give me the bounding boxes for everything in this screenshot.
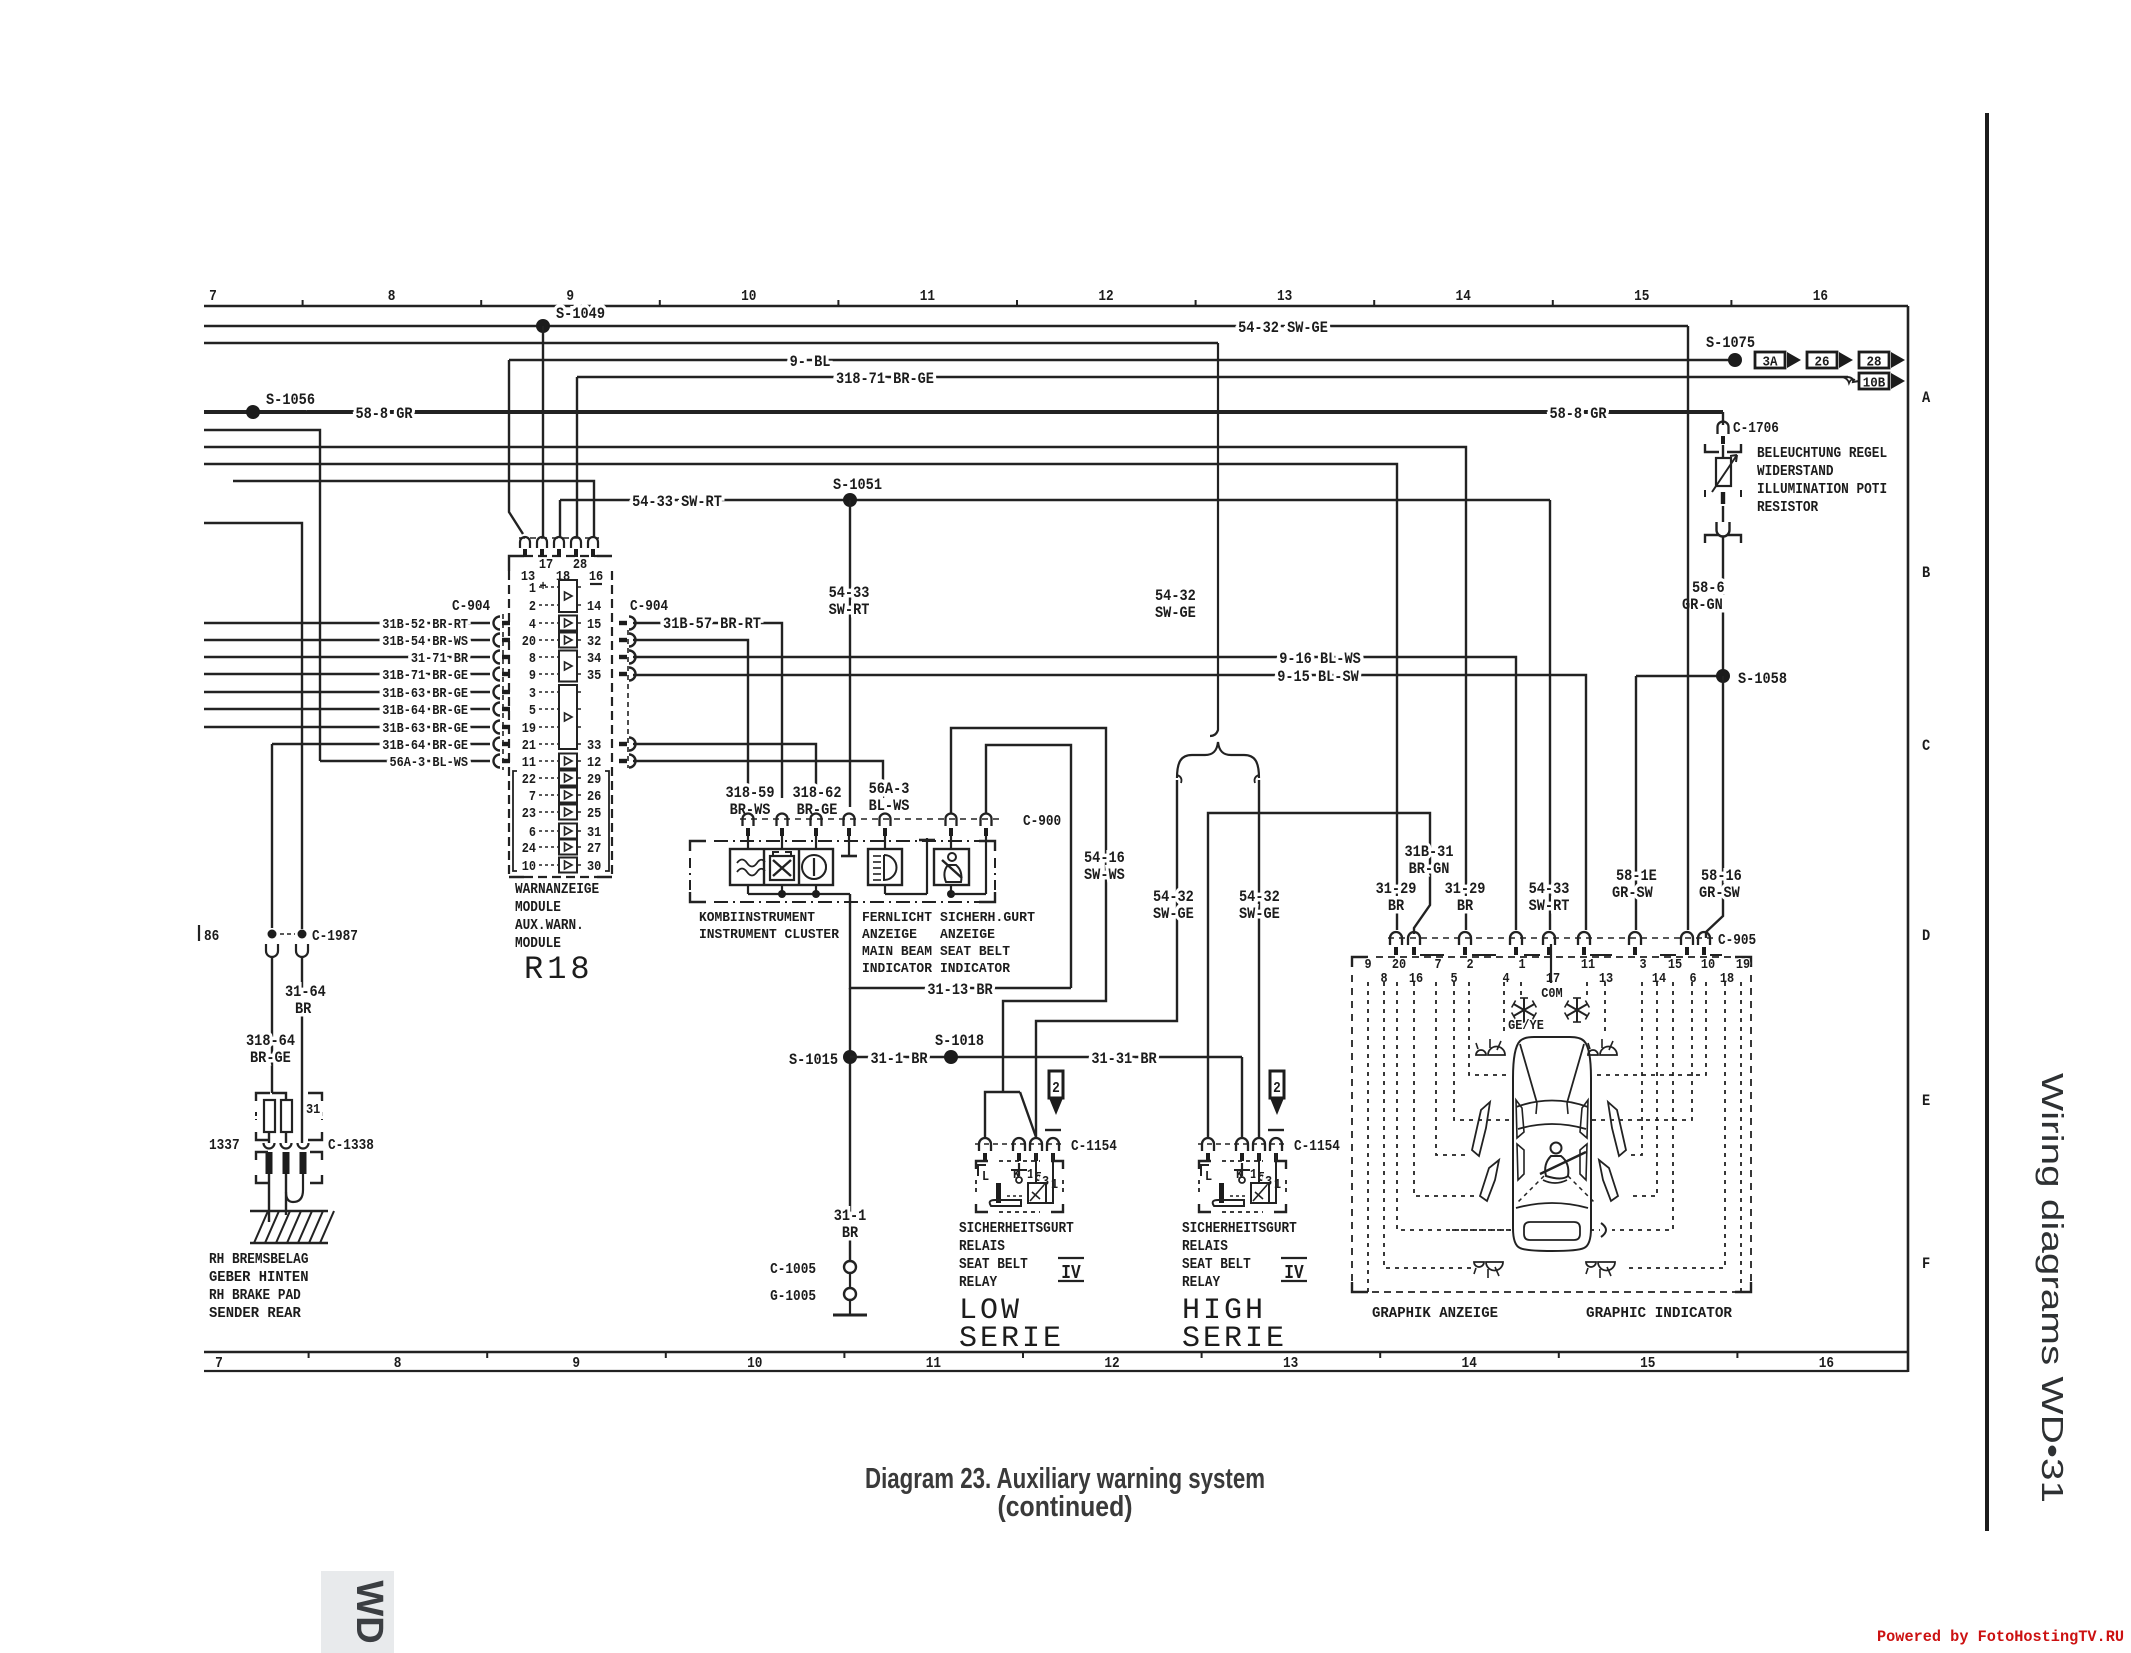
svg-text:SEAT BELT: SEAT BELT [1182, 1256, 1251, 1273]
group bracket left [513, 771, 517, 871]
arrow 10B [1859, 373, 1889, 389]
svg-text:GRAPHIC INDICATOR: GRAPHIC INDICATOR [1586, 1305, 1732, 1322]
svg-text:SICHERH.GURT: SICHERH.GURT [940, 910, 1035, 926]
svg-text:L: L [982, 1169, 989, 1185]
svg-text:4: 4 [529, 617, 536, 633]
svg-text:1337: 1337 [209, 1137, 240, 1154]
C-1154 pin x1276 [1270, 1138, 1282, 1151]
junction S-1058 [1636, 675, 1723, 677]
wire 31B-31 BR-GN [1208, 813, 1430, 1137]
left C-904 dashed connector line [502, 614, 504, 770]
wire 31B-54 BR-WS row y640 [204, 639, 490, 641]
svg-text:31B-52 BR-RT: 31B-52 BR-RT [382, 617, 468, 633]
side windows right [1580, 1100, 1588, 1138]
svg-text:Wiring diagrams WD•31: Wiring diagrams WD•31 [2035, 1073, 2070, 1503]
svg-text:86: 86 [204, 928, 219, 945]
svg-text:R18: R18 [524, 951, 594, 988]
C-905 pin x1704 [1698, 932, 1710, 945]
snowflake symbol [1523, 998, 1525, 1022]
dashed col 13 [1604, 982, 1606, 1036]
svg-text:C-1154: C-1154 [1071, 1138, 1117, 1155]
svg-text:KOMBIINSTRUMENT: KOMBIINSTRUMENT [699, 910, 815, 926]
svg-text:SW-RT: SW-RT [1529, 897, 1570, 915]
svg-text:RESISTOR: RESISTOR [1757, 499, 1818, 516]
svg-text:SW-GE: SW-GE [1153, 905, 1194, 923]
wire 56A-3 feeder [204, 430, 320, 761]
C-905 pin x1516 [1510, 932, 1522, 945]
diode D2 row 4 [559, 633, 577, 648]
svg-text:RH BREMSBELAG: RH BREMSBELAG [209, 1251, 309, 1268]
dashed col 6 [1592, 982, 1692, 1120]
svg-text:SICHERHEITSGURT: SICHERHEITSGURT [959, 1220, 1074, 1237]
top ruler line [204, 305, 1908, 308]
svg-text:12: 12 [587, 755, 601, 771]
rear window [1516, 1203, 1588, 1208]
svg-text:20: 20 [522, 634, 536, 650]
svg-text:SW-RT: SW-RT [829, 601, 870, 619]
sender resistor 2 [281, 1100, 292, 1132]
svg-text:INDICATOR: INDICATOR [862, 961, 933, 977]
dashed col 7 [1436, 982, 1470, 1155]
connector C-904 top pins [520, 537, 530, 548]
svg-text:C-1154: C-1154 [1294, 1138, 1340, 1155]
svg-text:28: 28 [573, 557, 587, 573]
sender resistor 1 [264, 1100, 275, 1132]
dashed seat lines [1518, 1176, 1544, 1202]
svg-text:SW-GE: SW-GE [1155, 604, 1196, 622]
dashed col 18 [1625, 982, 1725, 1268]
lamp symbol [1586, 1262, 1596, 1267]
svg-text:7: 7 [215, 1355, 223, 1372]
svg-text:12: 12 [1104, 1355, 1119, 1372]
diode row y812 [559, 805, 577, 820]
seat belt relay LOW connector C-1154 [975, 1143, 1063, 1145]
svg-text:SEAT BELT: SEAT BELT [940, 944, 1010, 960]
svg-text:2: 2 [1273, 1080, 1281, 1097]
svg-text:14: 14 [1456, 288, 1471, 305]
svg-text:31-1: 31-1 [834, 1207, 867, 1225]
group bracket right [605, 771, 609, 871]
svg-text:BR: BR [295, 1000, 312, 1018]
arrow 3A [1755, 352, 1785, 368]
main beam bottom rail [884, 885, 886, 894]
wire 58-6 GR-GN [1722, 536, 1724, 676]
right C-904 dashed connector line [627, 630, 629, 768]
diode row y865 [559, 858, 577, 873]
svg-text:RELAIS: RELAIS [959, 1238, 1005, 1255]
svg-text:54-33 SW-RT: 54-33 SW-RT [632, 493, 722, 511]
svg-text:BR: BR [842, 1224, 859, 1242]
svg-text:ANZEIGE: ANZEIGE [940, 927, 995, 943]
svg-text:58-6: 58-6 [1692, 579, 1725, 597]
dashed col 20 [1397, 982, 1511, 1230]
svg-text:2: 2 [529, 599, 536, 615]
svg-text:58-8 GR: 58-8 GR [1549, 405, 1606, 423]
svg-text:15: 15 [1634, 288, 1649, 305]
svg-text:(continued): (continued) [998, 1491, 1133, 1523]
svg-text:14: 14 [1462, 1355, 1477, 1372]
arrow 26 [1807, 352, 1837, 368]
open door flap upper left [1472, 1102, 1490, 1156]
svg-text:27: 27 [587, 841, 601, 857]
wire 58-8 GR (thick) [204, 410, 1723, 414]
svg-text:5: 5 [529, 703, 536, 719]
dashed col 19 [1740, 982, 1742, 1292]
svg-text:WARNANZEIGE: WARNANZEIGE [515, 881, 599, 898]
connector C-900 [740, 818, 1000, 820]
svg-text:15: 15 [1668, 957, 1682, 973]
svg-text:26: 26 [587, 789, 601, 805]
lamp symbol [1476, 1050, 1486, 1055]
C-1154 pin x985 [979, 1138, 991, 1151]
wire to LOW relay pin L [985, 1092, 1003, 1137]
svg-text:1: 1 [1250, 1167, 1257, 1183]
svg-text:SW-GE: SW-GE [1239, 905, 1280, 923]
svg-text:318-59: 318-59 [726, 784, 775, 802]
C-1154 pin x1208 [1202, 1138, 1214, 1151]
svg-text:15: 15 [1640, 1355, 1655, 1372]
svg-text:GR-SW: GR-SW [1699, 884, 1740, 902]
open door flap lower right [1599, 1160, 1618, 1201]
ruler tick [1016, 300, 1018, 306]
svg-text:RH BRAKE PAD: RH BRAKE PAD [209, 1287, 301, 1304]
wire 31-71 BR row y657 [204, 656, 490, 658]
svg-text:31B-71 BR-GE: 31B-71 BR-GE [382, 668, 468, 684]
C-900 pin x849 [844, 814, 855, 827]
svg-text:7: 7 [209, 288, 217, 305]
diode D1 rows 1-2 [559, 580, 577, 612]
connector C-1706 pin [1722, 412, 1724, 425]
seat belt person [1551, 1143, 1562, 1154]
svg-text:31-64: 31-64 [285, 983, 326, 1001]
svg-text:24: 24 [522, 841, 536, 857]
svg-text:54-32: 54-32 [1153, 888, 1194, 906]
svg-text:31: 31 [587, 825, 601, 841]
svg-text:FERNLICHT: FERNLICHT [862, 910, 932, 926]
ruler tick [1195, 300, 1197, 306]
svg-text:2: 2 [1466, 957, 1473, 973]
svg-text:RELAY: RELAY [1182, 1274, 1220, 1291]
svg-text:31B-57 BR-RT: 31B-57 BR-RT [663, 615, 761, 633]
svg-text:C-1005: C-1005 [770, 1261, 816, 1278]
wire stub left y523 [204, 523, 302, 929]
wire 31B-64 BR-GE row y744 [272, 743, 490, 745]
svg-text:SICHERHEITSGURT: SICHERHEITSGURT [1182, 1220, 1297, 1237]
svg-text:54-33: 54-33 [829, 584, 870, 602]
svg-text:1: 1 [1518, 957, 1525, 973]
wire 31B-63 BR-GE row y727 [204, 726, 490, 728]
svg-text:54-32: 54-32 [1155, 587, 1196, 605]
svg-text:31B-54 BR-WS: 31B-54 BR-WS [382, 634, 468, 650]
ruler tick [659, 300, 661, 306]
svg-text:GE/YE: GE/YE [1508, 1018, 1544, 1034]
diagonal to LOW pin 15 [1003, 1092, 1036, 1137]
C-905 pin x1584 [1578, 932, 1590, 945]
diode row y778 [559, 771, 577, 786]
svg-text:9: 9 [1364, 957, 1371, 973]
svg-text:10B: 10B [1863, 376, 1886, 392]
svg-text:C-905: C-905 [1718, 932, 1756, 949]
wire 54-16 SW-WS [951, 728, 1106, 1092]
svg-text:GR-SW: GR-SW [1612, 884, 1653, 902]
svg-text:19: 19 [1736, 957, 1750, 973]
diode row y795 [559, 788, 577, 803]
svg-text:14: 14 [587, 599, 601, 615]
wire 54-32 SW-GE fork vertical [1210, 343, 1218, 736]
svg-text:31: 31 [306, 1102, 320, 1118]
svg-text:31-1 BR: 31-1 BR [870, 1050, 927, 1068]
ruler tick [837, 300, 839, 306]
wire 9-16 BL-WS [633, 657, 1516, 930]
svg-text:33: 33 [587, 738, 601, 754]
connector C-905 [1388, 937, 1713, 939]
wire 31B-71 BR-GE row y674 [204, 673, 490, 675]
car body outline [1513, 1037, 1591, 1251]
arrow 28 [1859, 352, 1889, 368]
fork brace [1177, 742, 1259, 778]
svg-text:10: 10 [522, 859, 536, 875]
bottom ruler line 1 [204, 1351, 1908, 1354]
svg-text:2: 2 [1052, 1080, 1060, 1097]
wire 31B-63 BR-GE row y692 [204, 691, 490, 693]
svg-text:BR-WS: BR-WS [730, 801, 771, 819]
svg-text:Powered by FotoHostingTV.RU: Powered by FotoHostingTV.RU [1877, 1628, 2124, 1646]
svg-text:3: 3 [1639, 957, 1646, 973]
svg-text:11: 11 [920, 288, 935, 305]
svg-text:C: C [1922, 737, 1931, 755]
svg-text:56A-3 BL-WS: 56A-3 BL-WS [390, 755, 469, 771]
wire bus to C-905 pin 2 [204, 447, 1466, 930]
sender wires to ground [268, 1174, 270, 1222]
connector C-1005 [844, 1261, 856, 1273]
svg-text:MAIN BEAM: MAIN BEAM [862, 944, 932, 960]
svg-text:8: 8 [394, 1355, 402, 1372]
svg-text:18: 18 [556, 569, 570, 585]
svg-text:34: 34 [587, 651, 601, 667]
svg-text:12: 12 [1098, 288, 1113, 305]
wire 31B-71 BR-GE top [577, 376, 1848, 378]
svg-text:7: 7 [529, 789, 536, 805]
chassis ground hatch [250, 1210, 328, 1212]
svg-text:9: 9 [529, 668, 536, 684]
pin link ticks [1420, 954, 1444, 956]
C-905 pin x1465 [1459, 932, 1471, 945]
open door flap lower left [1480, 1160, 1499, 1201]
svg-text:INDICATOR: INDICATOR [940, 961, 1011, 977]
wire 31-31 BR to HIGH pin K [1241, 1057, 1243, 1137]
C-900 pin x782 [777, 814, 788, 827]
svg-text:L: L [1205, 1169, 1212, 1185]
svg-text:SEAT BELT: SEAT BELT [959, 1256, 1028, 1273]
svg-text:C0M: C0M [1541, 986, 1562, 1002]
connector C-1987 [268, 930, 277, 939]
solid col 17 COM [1550, 944, 1552, 983]
svg-text:C-904: C-904 [630, 598, 668, 615]
svg-text:9-16 BL-WS: 9-16 BL-WS [1279, 650, 1361, 668]
svg-text:S-1051: S-1051 [833, 476, 882, 494]
svg-text:31B-63 BR-GE: 31B-63 BR-GE [382, 686, 468, 702]
svg-text:318-64: 318-64 [246, 1032, 295, 1050]
svg-text:31B-64 BR-GE: 31B-64 BR-GE [382, 738, 468, 754]
diode row y831 [559, 824, 577, 839]
svg-text:10: 10 [741, 288, 756, 305]
C-1154 pin x1259 [1253, 1138, 1265, 1151]
svg-text:20: 20 [1392, 957, 1406, 973]
wire 31-1 BR vertical [849, 988, 851, 1261]
svg-text:31-71 BR: 31-71 BR [411, 651, 469, 667]
svg-text:8: 8 [388, 288, 396, 305]
svg-text:E: E [1922, 1092, 1930, 1110]
svg-text:31B-63 BR-GE: 31B-63 BR-GE [382, 721, 468, 737]
svg-text:B: B [1922, 564, 1931, 582]
svg-text:WD: WD [348, 1580, 390, 1643]
svg-text:SERIE: SERIE [959, 1322, 1064, 1356]
svg-text:MODULE: MODULE [515, 935, 561, 952]
svg-text:18: 18 [1720, 971, 1734, 987]
junction S-1075 [1728, 353, 1742, 367]
ruler tick [1730, 300, 1732, 306]
svg-text:3A: 3A [1763, 355, 1779, 371]
windshield / A pillars [1520, 1044, 1584, 1103]
svg-text:56A-3: 56A-3 [869, 780, 910, 798]
svg-text:31-29: 31-29 [1376, 880, 1417, 898]
svg-text:BR-GE: BR-GE [797, 801, 838, 819]
roman IV symbol [1058, 1257, 1084, 1259]
svg-text:BL-WS: BL-WS [869, 797, 910, 815]
C-1154 pin x1053 [1047, 1138, 1059, 1151]
lamp symbol [1588, 1050, 1598, 1055]
C-900 pin x748 [743, 814, 754, 827]
relay LOW box [976, 1161, 988, 1169]
svg-text:RELAY: RELAY [959, 1274, 997, 1291]
C-1154 pin x1019 [1013, 1138, 1025, 1151]
svg-text:13: 13 [1283, 1355, 1298, 1372]
trunk lid [1524, 1222, 1580, 1240]
dashed col 5 [1454, 982, 1510, 1120]
svg-text:SERIE: SERIE [1182, 1322, 1287, 1356]
wire 31-1 BR horizontal [850, 1056, 1242, 1058]
WD tab [321, 1571, 394, 1653]
illumination poti resistor R [1705, 444, 1719, 452]
svg-text:25: 25 [587, 806, 601, 822]
dashed col 14 [1628, 982, 1657, 1196]
dashed col 1 [1520, 982, 1522, 996]
svg-text:31B-31: 31B-31 [1405, 843, 1454, 861]
svg-text:3: 3 [529, 686, 536, 702]
right frame border [1907, 306, 1910, 1372]
svg-text:318-62: 318-62 [793, 784, 842, 802]
svg-text:28: 28 [1867, 355, 1882, 371]
seat belt icon box [934, 849, 969, 885]
wire bus to module pin 16 [233, 481, 594, 538]
svg-text:F: F [1922, 1255, 1930, 1273]
svg-text:S-1049: S-1049 [556, 305, 605, 323]
svg-text:21: 21 [522, 738, 536, 754]
svg-text:58-1E: 58-1E [1616, 867, 1657, 885]
svg-text:19: 19 [522, 721, 536, 737]
svg-text:11: 11 [926, 1355, 941, 1372]
svg-text:WIDERSTAND: WIDERSTAND [1757, 463, 1834, 480]
main beam icon box [868, 849, 902, 885]
stub pin7 down [985, 836, 987, 894]
svg-text:GRAPHIK ANZEIGE: GRAPHIK ANZEIGE [1372, 1305, 1498, 1322]
instrument cluster box [690, 841, 706, 851]
right fork 54-32 to HIGH relay [1258, 780, 1260, 1137]
ruler tick [302, 300, 304, 306]
svg-text:BR: BR [1388, 897, 1405, 915]
wire 31-64 BR [301, 957, 303, 1093]
svg-text:16: 16 [1409, 971, 1423, 987]
svg-text:23: 23 [522, 806, 536, 822]
svg-text:318-71 BR-GE: 318-71 BR-GE [836, 370, 934, 388]
wire bus to C-905 pin 20 [204, 464, 1397, 930]
svg-text:C-904: C-904 [452, 598, 490, 615]
svg-text:31-13 BR: 31-13 BR [927, 981, 993, 999]
bottom ruler line 2 [204, 1370, 1908, 1372]
svg-text:INSTRUMENT CLUSTER: INSTRUMENT CLUSTER [699, 927, 840, 943]
svg-text:17: 17 [1546, 971, 1560, 987]
svg-text:54-32 SW-GE: 54-32 SW-GE [1238, 319, 1328, 337]
svg-text:S-1058: S-1058 [1738, 670, 1787, 688]
C-1154 pin x1036 [1030, 1138, 1042, 1151]
left fork 54-32 to LOW relay [1036, 780, 1177, 1137]
svg-text:MODULE: MODULE [515, 899, 561, 916]
resistor bottom pin [1721, 492, 1725, 504]
svg-text:14: 14 [1652, 971, 1666, 987]
dashed col 8 [1384, 982, 1474, 1268]
row12 wire to C-900 pin5 [633, 761, 883, 798]
cluster bottom rail [747, 885, 749, 894]
svg-text:13: 13 [1599, 971, 1613, 987]
svg-text:S-1056: S-1056 [266, 391, 315, 409]
seat belt bottom rail [950, 885, 952, 894]
wire 31B-64 BR-GE row y709 [204, 708, 490, 710]
seat belt relay HIGH connector C-1154 [1198, 1143, 1286, 1145]
dashed col 2 [1469, 982, 1510, 1075]
svg-text:SW-WS: SW-WS [1084, 866, 1125, 884]
svg-text:ILLUMINATION POTI: ILLUMINATION POTI [1757, 481, 1887, 498]
C-900 pin x951 [946, 814, 957, 827]
svg-text:9- BL: 9- BL [790, 353, 831, 371]
C-905 pin x1414 [1408, 932, 1420, 945]
ruler tick [480, 300, 482, 306]
svg-text:17: 17 [539, 557, 553, 573]
diode D3 row 20 [559, 651, 577, 682]
svg-text:C-1338: C-1338 [328, 1137, 374, 1154]
label 31B-57 BR-RT row15 wire [633, 623, 782, 798]
C-900 pin x986 [981, 814, 992, 827]
svg-text:C-1706: C-1706 [1733, 420, 1779, 437]
svg-text:54-33: 54-33 [1529, 880, 1570, 898]
svg-text:C-900: C-900 [1023, 813, 1061, 830]
C-900 pin x816 [811, 814, 822, 827]
wire 31B-64 BR-GE [271, 957, 273, 1093]
wire 9- BL [509, 359, 1735, 361]
svg-text:6: 6 [529, 825, 536, 841]
dashed col 10 [1592, 982, 1706, 1075]
svg-text:32: 32 [587, 634, 601, 650]
junction S-1051 [843, 493, 857, 507]
battery icon [770, 856, 794, 880]
C-900 pin x885 [880, 814, 891, 827]
svg-text:16: 16 [1813, 288, 1828, 305]
svg-text:31-31 BR: 31-31 BR [1091, 1050, 1157, 1068]
svg-text:35: 35 [587, 668, 601, 684]
svg-text:GEBER HINTEN: GEBER HINTEN [209, 1269, 309, 1286]
dashed col 3 [1628, 982, 1642, 1155]
sender dashed box [256, 1093, 270, 1101]
svg-text:SENDER REAR: SENDER REAR [209, 1305, 301, 1322]
